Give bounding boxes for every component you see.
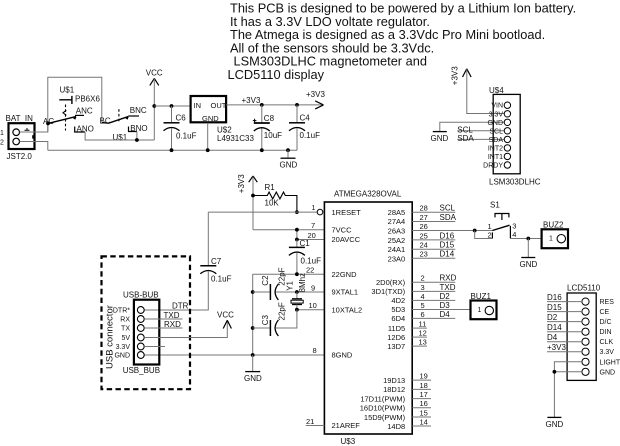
svg-text:17D11(PWM): 17D11(PWM) (360, 395, 405, 404)
svg-text:PB6X6: PB6X6 (75, 95, 100, 104)
wire pin19 stub (412, 379, 431, 381)
svg-text:5V: 5V (121, 335, 130, 342)
svg-text:15: 15 (420, 408, 428, 417)
wire pin25 D16 (412, 239, 455, 241)
svg-text:D15: D15 (547, 303, 562, 312)
svg-text:27: 27 (420, 213, 428, 222)
svg-text:0.1uF: 0.1uF (211, 275, 232, 284)
svg-text:11D5: 11D5 (388, 324, 405, 333)
svg-text:D4: D4 (547, 333, 558, 342)
svg-text:5D3: 5D3 (391, 305, 405, 314)
svg-text:20AVCC: 20AVCC (332, 235, 361, 244)
svg-text:22pF: 22pF (278, 302, 287, 320)
svg-text:10uF: 10uF (264, 131, 282, 140)
svg-text:D2: D2 (440, 292, 451, 301)
svg-text:GND: GND (431, 134, 449, 143)
wire LSM GND (440, 122, 505, 131)
wire pin28 SCL (412, 211, 455, 213)
svg-text:19D13: 19D13 (383, 376, 405, 385)
svg-text:U$3: U$3 (341, 437, 356, 446)
svg-text:16D10(PWM): 16D10(PWM) (360, 404, 406, 413)
svg-text:D16: D16 (547, 293, 562, 302)
wire pin6 D4 (412, 317, 455, 319)
svg-text:1: 1 (0, 130, 4, 137)
junction VCC/IN (152, 104, 156, 108)
svg-text:VIN: VIN (491, 103, 503, 110)
wire pin17 stub (412, 398, 431, 400)
svg-text:7: 7 (311, 221, 315, 230)
op-amp U$3 ATMEGA328OVAL body (324, 190, 412, 446)
contact ANC (75, 114, 84, 116)
svg-text:3.3V: 3.3V (116, 344, 131, 351)
connector U$4 LSM303DLHC (483, 86, 541, 187)
svg-text:17: 17 (420, 390, 428, 399)
svg-text:DRDY: DRDY (483, 163, 503, 170)
ground below gnd rail (244, 355, 262, 383)
svg-text:U$4: U$4 (489, 86, 504, 95)
svg-text:ANC: ANC (76, 107, 93, 116)
connector LCD5110 (567, 284, 620, 381)
svg-text:D4: D4 (440, 310, 451, 319)
switch pole A blade (46, 122, 50, 126)
svg-text:RXD: RXD (164, 320, 181, 329)
svg-text:5: 5 (421, 301, 425, 310)
wire pin4 D2 (412, 299, 455, 301)
wire pin16 stub (412, 407, 431, 409)
capacitor C3 22pF (251, 302, 297, 336)
svg-text:3: 3 (421, 283, 425, 292)
svg-text:0.1uF: 0.1uF (300, 131, 321, 140)
svg-text:9: 9 (311, 283, 315, 292)
wire battery pin1 to AC and over to BC (20, 77, 102, 132)
wire reset net (208, 211, 317, 213)
svg-text:14: 14 (420, 417, 428, 426)
svg-text:TXD: TXD (164, 311, 180, 320)
svg-text:10XTAL2: 10XTAL2 (332, 305, 363, 314)
pin 1 bubble (317, 209, 323, 215)
regulator U$2 L4931C33 (191, 96, 255, 152)
supply +3V3 (LSM303) (451, 66, 505, 114)
svg-text:18D12: 18D12 (383, 385, 405, 394)
svg-text:8GND: 8GND (332, 351, 353, 360)
svg-text:RES: RES (600, 299, 615, 306)
svg-text:GND: GND (487, 120, 503, 127)
svg-text:BAT_IN: BAT_IN (6, 114, 34, 123)
svg-text:BC: BC (100, 116, 111, 125)
wire S1 lower contact (475, 231, 493, 239)
svg-text:10K: 10K (265, 199, 280, 208)
svg-text:13: 13 (419, 338, 427, 347)
svg-text:4: 4 (421, 292, 425, 301)
wire VCC to regulator IN (154, 105, 190, 107)
wire pin13 stub (412, 345, 427, 347)
svg-text:4: 4 (512, 230, 516, 239)
wire SCL stub (LSM) (457, 130, 504, 132)
wire S1 out to BUZ2 (510, 238, 541, 240)
svg-text:D3: D3 (440, 301, 451, 310)
wire LCD GND pin (554, 371, 582, 373)
right side pin texts D0..D7 (371, 278, 405, 351)
svg-text:9XTAL1: 9XTAL1 (332, 288, 359, 297)
svg-text:23: 23 (420, 250, 428, 259)
svg-text:27A4: 27A4 (388, 217, 406, 226)
svg-text:0.1uF: 0.1uF (176, 132, 197, 141)
junction R1 branch (251, 194, 255, 198)
svg-text:16: 16 (420, 399, 428, 408)
svg-text:1: 1 (312, 205, 316, 212)
svg-text:RX: RX (120, 317, 130, 324)
svg-text:10: 10 (309, 301, 317, 310)
svg-text:15D9(PWM): 15D9(PWM) (364, 413, 406, 422)
svg-text:DTR: DTR (172, 302, 189, 311)
svg-text:25A2: 25A2 (388, 236, 406, 245)
svg-text:1: 1 (549, 236, 553, 243)
capacitor C6 (164, 106, 197, 152)
ground (S1/BUZ2) (520, 239, 538, 270)
svg-text:LSM303DLHC: LSM303DLHC (489, 178, 541, 187)
wire ANO to VCC rail (85, 132, 154, 140)
svg-text:LCD5110: LCD5110 (567, 284, 601, 293)
wire pin20 AVCC (297, 230, 325, 240)
svg-text:19: 19 (420, 372, 428, 381)
wire SDA stub (LSM) (457, 138, 504, 140)
wire 3.3V stub (144, 346, 165, 348)
svg-text:21AREF: 21AREF (332, 421, 361, 430)
svg-text:L4931C33: L4931C33 (217, 134, 254, 143)
resistor R1 10K (253, 183, 297, 212)
svg-text:BUZ2: BUZ2 (543, 221, 564, 230)
svg-text:D16: D16 (440, 231, 455, 240)
wire LCD D16 (547, 301, 582, 303)
wire LCD D4 (547, 341, 582, 343)
svg-text:26A3: 26A3 (388, 227, 406, 236)
svg-text:C2: C2 (261, 275, 270, 286)
svg-text:13D7: 13D7 (387, 342, 405, 351)
wire RXD stub (144, 327, 182, 329)
supply +3V3 for R1/VCC pins (237, 174, 257, 230)
USB connector dashed box (102, 256, 191, 389)
svg-text:D2: D2 (547, 313, 558, 322)
buzzer BUZ1 (471, 292, 497, 319)
svg-text:LIGHT: LIGHT (600, 359, 620, 366)
wire TXD stub (144, 318, 182, 320)
svg-text:S1: S1 (490, 201, 500, 210)
svg-text:D15: D15 (440, 241, 455, 250)
svg-text:GND: GND (520, 260, 538, 269)
svg-text:3: 3 (512, 222, 516, 231)
svg-text:22: 22 (306, 265, 314, 274)
svg-text:GND: GND (202, 114, 219, 123)
svg-text:USB_BUB: USB_BUB (123, 366, 160, 375)
connector USB_BUB (113, 291, 160, 375)
svg-text:25: 25 (420, 231, 428, 240)
svg-text:18: 18 (420, 381, 428, 390)
svg-text:+3V3: +3V3 (237, 174, 246, 193)
svg-text:TXD: TXD (440, 283, 456, 292)
wire pin26 to S1 (412, 230, 492, 232)
contact ANO (75, 127, 85, 133)
svg-text:28: 28 (420, 204, 428, 213)
svg-text:2: 2 (421, 274, 425, 283)
wire ground rail (48, 149, 297, 151)
svg-text:3.3V: 3.3V (489, 111, 504, 118)
wire pin8 GND bus (144, 354, 324, 356)
contact BNC (128, 115, 139, 117)
svg-text:22GND: 22GND (332, 270, 358, 279)
pushbutton U$1 PB6X6 (43, 86, 148, 143)
wire pin11 stub (412, 327, 427, 329)
svg-text:+3V3: +3V3 (242, 96, 261, 105)
svg-text:U$1: U$1 (113, 133, 128, 142)
svg-text:4D2: 4D2 (391, 296, 405, 305)
svg-text:INT1: INT1 (488, 154, 503, 161)
svg-text:SCL: SCL (440, 204, 456, 213)
wire pin12 stub (412, 336, 427, 338)
svg-text:CE: CE (600, 309, 610, 316)
wire pin15 stub (412, 416, 431, 418)
wire 5V to VCC (144, 321, 227, 338)
svg-text:8Mhz: 8Mhz (298, 273, 307, 293)
switch S1 (488, 201, 517, 240)
svg-text:1: 1 (488, 222, 492, 231)
svg-text:24A1: 24A1 (388, 245, 406, 254)
svg-text:24: 24 (420, 241, 428, 250)
wire pin24 D15 (412, 248, 455, 250)
wire LCD D2 (547, 321, 582, 323)
svg-text:23A0: 23A0 (388, 254, 406, 263)
wire pin7 VCC (253, 229, 324, 231)
svg-text:GND: GND (600, 369, 616, 376)
junction R1/reset (295, 210, 299, 214)
wire battery pin2 to ground rail (20, 142, 48, 151)
svg-text:2D0(RX): 2D0(RX) (376, 278, 406, 287)
svg-text:1: 1 (478, 307, 482, 314)
svg-text:CLK: CLK (600, 339, 614, 346)
svg-text:2: 2 (0, 140, 4, 147)
svg-text:USB-BUB: USB-BUB (123, 291, 159, 300)
ground (LSM303) (431, 132, 449, 143)
svg-text:Y1: Y1 (285, 280, 294, 290)
capacitor C8 10uF (253, 103, 282, 152)
svg-text:IN: IN (194, 101, 202, 110)
switch pole B blade (102, 117, 129, 124)
svg-text:LCD5110 display: LCD5110 display (228, 67, 325, 82)
wire pin18 stub (412, 388, 431, 390)
svg-text:+3V3: +3V3 (451, 66, 460, 85)
wire LCD +3V3 (547, 351, 582, 353)
svg-text:GND: GND (280, 161, 298, 170)
wire pin21 AREF stub (306, 425, 325, 427)
ground below C4 rail (280, 148, 298, 169)
svg-text:+3V3: +3V3 (547, 343, 566, 352)
connector BAT_IN JST2.0 (0, 114, 35, 161)
wire pin23 D14 (412, 257, 455, 259)
junction pin26/S1 (473, 229, 477, 233)
svg-text:14D8: 14D8 (387, 422, 405, 431)
svg-text:SDA: SDA (440, 213, 457, 222)
svg-text:6D4: 6D4 (391, 314, 405, 323)
contact BNO (129, 127, 137, 132)
svg-text:D14: D14 (547, 323, 562, 332)
capacitor C1 0.1uF (289, 239, 321, 274)
svg-text:INT2: INT2 (488, 145, 503, 152)
svg-text:C7: C7 (211, 257, 222, 266)
svg-text:VCC: VCC (146, 69, 163, 78)
svg-text:R1: R1 (265, 183, 276, 192)
svg-text:3D1(TXD): 3D1(TXD) (371, 287, 405, 296)
svg-text:0.1uF: 0.1uF (301, 257, 322, 266)
ground (LCD5110) (546, 417, 564, 429)
svg-text:11: 11 (419, 320, 427, 329)
wire BNO drop (136, 132, 138, 141)
wire pin5 D3 to BUZ1 (412, 309, 470, 311)
wire LCD D14 (547, 331, 582, 333)
svg-text:26: 26 (420, 222, 428, 231)
svg-text:12: 12 (419, 329, 427, 338)
svg-text:BNC: BNC (130, 106, 147, 115)
svg-text:3.3V: 3.3V (600, 349, 615, 356)
svg-text:7VCC: 7VCC (332, 225, 353, 234)
wire pin22 GND (253, 273, 325, 275)
supply VCC (146, 69, 163, 141)
svg-text:SDA: SDA (489, 137, 504, 144)
svg-text:D/C: D/C (600, 319, 612, 326)
wire pin10 XTAL2 (297, 309, 325, 311)
right side pin texts D8..D13 (360, 376, 406, 431)
svg-text:GND: GND (114, 353, 130, 360)
wire gnd left rail (252, 274, 254, 355)
svg-text:U$1: U$1 (60, 86, 75, 95)
wire LCD LIGHT to gnd (554, 362, 582, 417)
junction C6 top (170, 104, 174, 108)
right side pin texts A5..A0 (388, 208, 406, 264)
svg-text:C8: C8 (264, 114, 275, 123)
svg-text:C3: C3 (261, 315, 270, 326)
svg-text:VCC: VCC (217, 311, 234, 320)
svg-text:21: 21 (306, 417, 314, 426)
svg-text:28A5: 28A5 (388, 208, 406, 217)
svg-text:GND: GND (546, 420, 564, 429)
svg-text:8: 8 (313, 346, 317, 355)
svg-text:D14: D14 (440, 250, 455, 259)
svg-text:C4: C4 (300, 114, 311, 123)
capacitor C7 0.1uF (144, 212, 232, 310)
svg-text:C6: C6 (176, 114, 187, 123)
svg-text:1RESET: 1RESET (332, 208, 362, 217)
wire pin14 stub (412, 425, 431, 427)
wire pin2 RXD (412, 281, 455, 283)
junction BNO/ANO (135, 138, 139, 142)
wire LCD D15 (547, 311, 582, 313)
svg-text:GND: GND (244, 374, 262, 383)
supply VCC (USB) (217, 311, 234, 329)
wire pin27 SDA (412, 221, 455, 223)
capacitor C2 22pF (251, 267, 325, 300)
svg-text:DIN: DIN (600, 329, 612, 336)
svg-text:ATMEGA328OVAL: ATMEGA328OVAL (334, 190, 402, 199)
svg-text:DTR*: DTR* (113, 308, 130, 315)
svg-text:RXD: RXD (440, 274, 457, 283)
crystal Y1 8Mhz (285, 273, 307, 310)
svg-text:6: 6 (421, 310, 425, 319)
svg-text:12D6: 12D6 (387, 333, 405, 342)
note text block (228, 1, 577, 83)
svg-text:SCL: SCL (457, 125, 473, 134)
svg-text:+3V3: +3V3 (306, 90, 325, 99)
wire pin3 TXD (412, 290, 455, 292)
wire OUT +3V3 with arrow (226, 90, 325, 109)
svg-text:SCL: SCL (489, 128, 503, 135)
capacitor C4 0.1uF (289, 103, 320, 150)
buzzer BUZ2 (542, 221, 568, 249)
svg-text:TX: TX (121, 326, 130, 333)
svg-text:OUT: OUT (211, 101, 227, 110)
svg-text:JST2.0: JST2.0 (7, 152, 33, 161)
svg-text:SDA: SDA (457, 134, 474, 143)
